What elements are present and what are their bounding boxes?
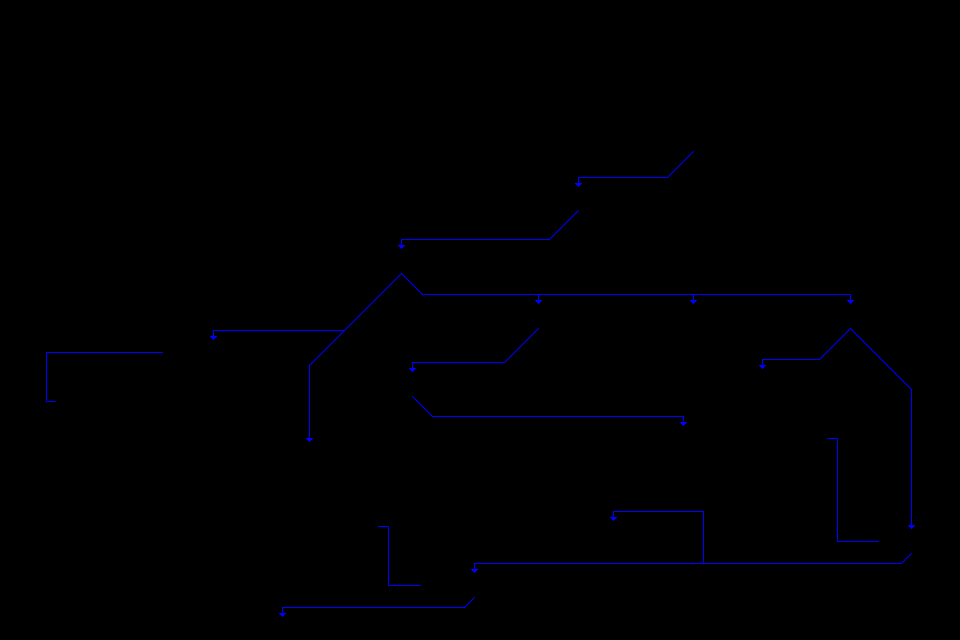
arrowhead A11 into node N13 <box>908 525 915 526</box>
wire edge E11 from node N13 to node N14 <box>475 554 912 570</box>
wire edge E14 from node N17 to node N14 <box>378 527 421 586</box>
wire edge E8 from node N9 to node N10 <box>763 329 851 366</box>
arrowhead A7 into node N10 <box>759 365 766 366</box>
arrowhead A5 into node N8 <box>690 300 697 301</box>
arrowhead A14 into node N16 <box>279 613 286 614</box>
wire edge E15 from node N12 to node N13 <box>827 439 879 542</box>
arrowhead A8 into node N6 <box>306 438 313 439</box>
wire edge E2 from node N2 to node N3 <box>402 211 579 246</box>
wire edge E7 from node N11 to node N12 <box>413 397 684 423</box>
wire edge E13 from node N14 to node N16 <box>283 598 475 614</box>
wire edge E5 from node N3 to nodes N7 N8 N9 <box>402 274 851 301</box>
arrowhead A3 into node N4 <box>210 336 217 337</box>
arrowhead A13 into node N14 <box>471 569 478 570</box>
arrowhead A10 into node N12 <box>680 422 687 423</box>
arrowhead A2 into node N3 <box>398 245 405 246</box>
wire edge E5 arrow drop at node N7 <box>538 295 540 301</box>
wire edge E5 arrow drop at node N8 <box>693 295 695 301</box>
wire edge E9 from node N9 to node N13 <box>851 329 912 526</box>
arrowhead A12 into node N15 <box>610 517 617 518</box>
arrowhead A6 into node N9 <box>847 300 854 301</box>
wire edge E4 from node N3 to node N6 <box>310 331 345 439</box>
wire edge E1 from node N1 to node N2 <box>579 152 694 184</box>
wire edge E10 from node N4 to node N5 <box>47 353 164 402</box>
arrowhead A1 into node N2 <box>575 183 582 184</box>
arrowhead A4 into node N7 <box>535 300 542 301</box>
wire edge E3 from node N3 to node N4 <box>214 274 402 337</box>
wire edge E12 branch from node N13 to node N15 <box>614 512 704 564</box>
arrowhead A9 into node N11 <box>409 368 416 369</box>
wire edge E6 from node N7 to node N11 <box>413 329 539 369</box>
